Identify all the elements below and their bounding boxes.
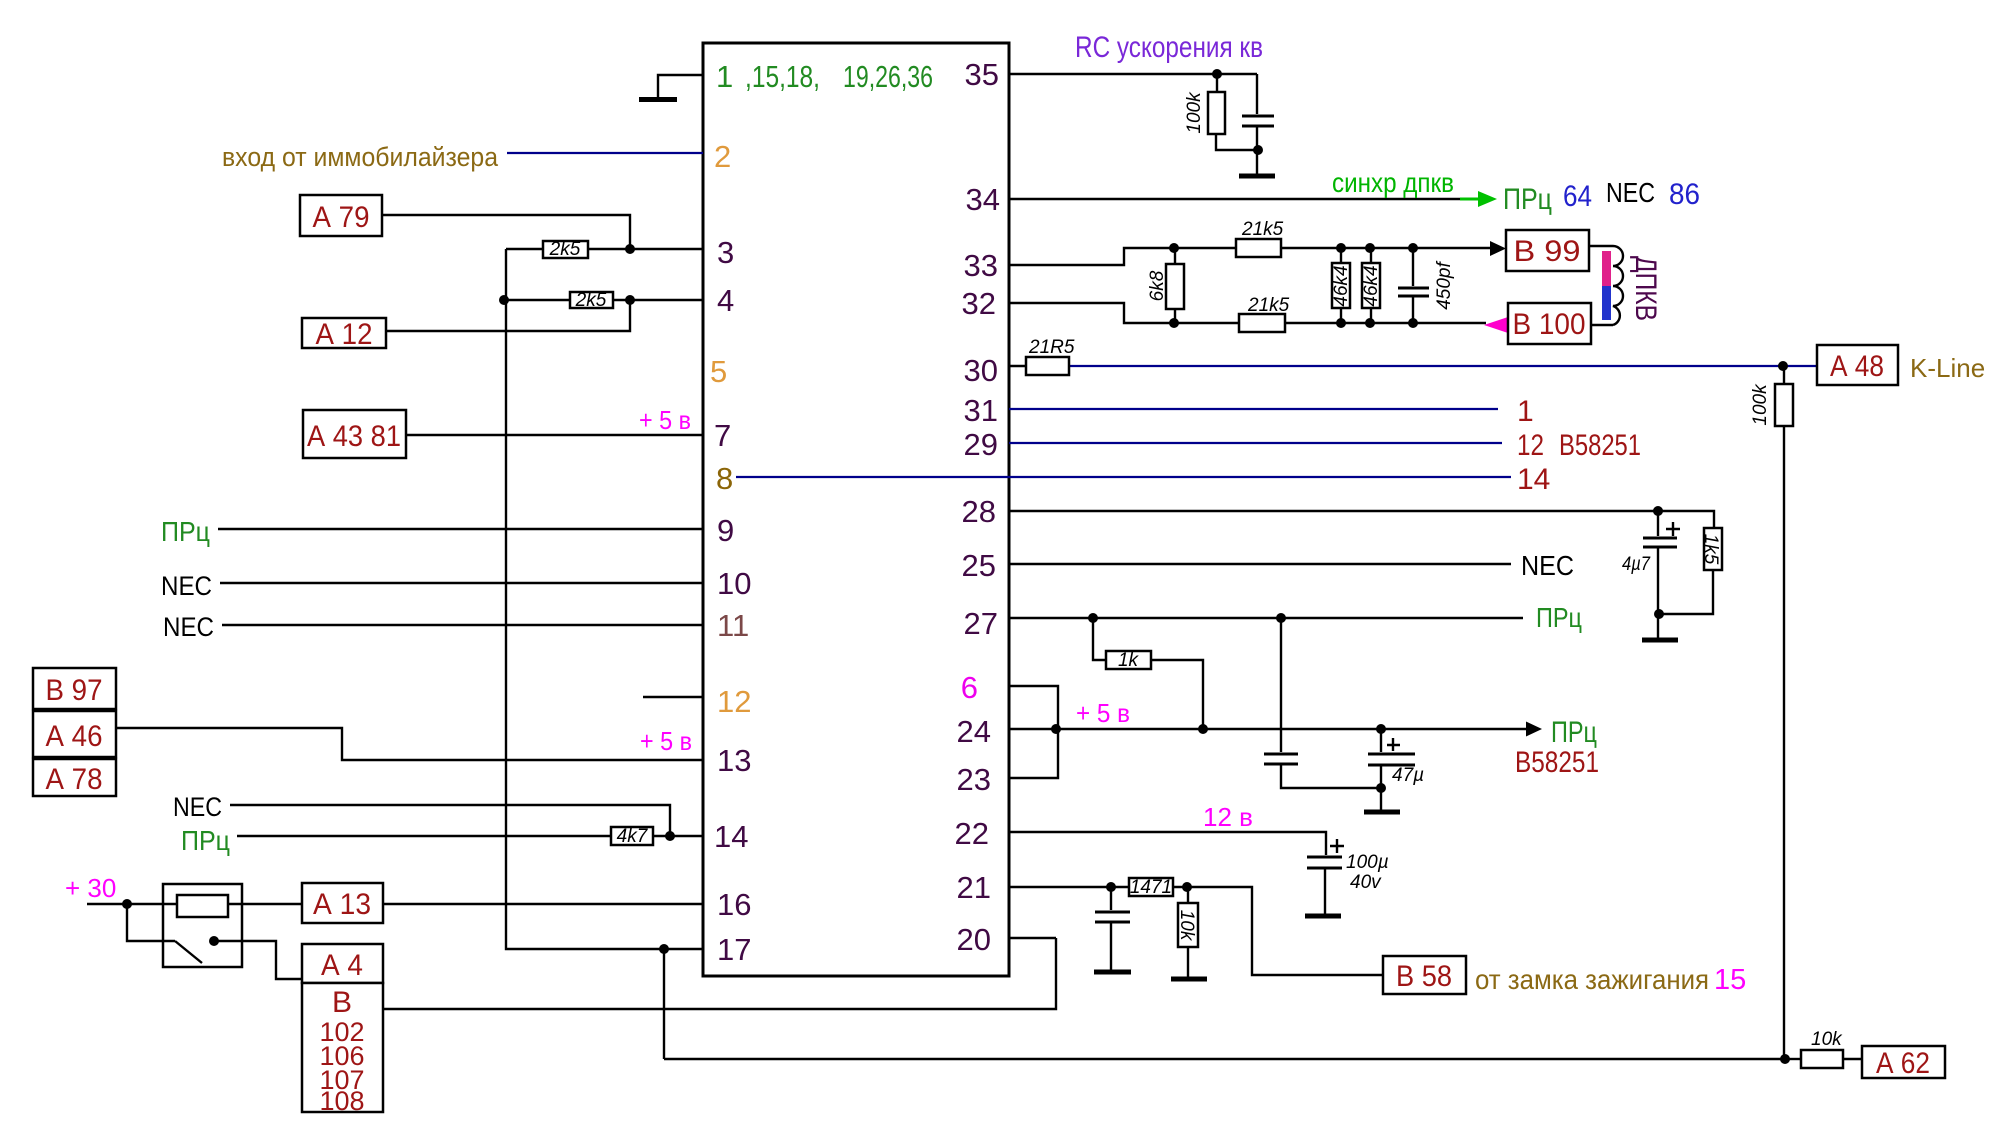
svg-text:28: 28 <box>962 494 996 529</box>
svg-text:от замка зажигания: от замка зажигания <box>1475 964 1709 995</box>
svg-text:20: 20 <box>957 922 991 957</box>
svg-text:2: 2 <box>714 139 731 174</box>
svg-text:В58251: В58251 <box>1515 746 1599 779</box>
svg-text:30: 30 <box>964 353 998 388</box>
svg-text:35: 35 <box>965 57 999 92</box>
svg-text:108: 108 <box>319 1086 364 1116</box>
svg-text:В 97: В 97 <box>46 674 103 707</box>
svg-text:10: 10 <box>717 566 751 601</box>
svg-text:1k5: 1k5 <box>1700 534 1721 565</box>
svg-text:22: 22 <box>955 816 989 851</box>
svg-text:29: 29 <box>964 427 998 462</box>
svg-text:NEC: NEC <box>1606 177 1655 208</box>
svg-text:В58251: В58251 <box>1559 429 1641 462</box>
svg-text:15: 15 <box>1714 964 1746 996</box>
svg-text:1k: 1k <box>1118 650 1140 671</box>
svg-text:4µ7: 4µ7 <box>1622 554 1651 575</box>
svg-text:8: 8 <box>716 461 733 496</box>
svg-text:А 79: А 79 <box>313 201 370 234</box>
svg-text:64: 64 <box>1563 180 1592 213</box>
svg-text:32: 32 <box>962 286 996 321</box>
svg-text:100µ: 100µ <box>1346 852 1389 873</box>
svg-text:34: 34 <box>966 182 1000 217</box>
svg-text:1471: 1471 <box>1130 877 1172 898</box>
svg-text:ПРц: ПРц <box>181 825 230 856</box>
svg-text:2k5: 2k5 <box>575 290 607 311</box>
svg-text:+ 5 в: + 5 в <box>640 726 692 756</box>
svg-text:А 62: А 62 <box>1876 1047 1930 1080</box>
svg-text:,15,18,: ,15,18, <box>745 59 820 94</box>
svg-text:12 в: 12 в <box>1203 802 1253 832</box>
svg-text:13: 13 <box>717 743 751 778</box>
svg-text:+ 5 в: + 5 в <box>639 405 691 435</box>
svg-text:K-Line: K-Line <box>1910 353 1985 383</box>
svg-text:10k: 10k <box>1176 910 1197 942</box>
svg-text:ДПКВ: ДПКВ <box>1629 256 1662 321</box>
svg-text:46k4: 46k4 <box>1361 265 1382 306</box>
svg-text:24: 24 <box>957 714 991 749</box>
svg-text:100k: 100k <box>1184 91 1205 134</box>
svg-text:25: 25 <box>962 548 996 583</box>
svg-text:А 4: А 4 <box>321 949 363 982</box>
svg-text:6k8: 6k8 <box>1147 270 1168 301</box>
svg-text:В: В <box>332 986 352 1019</box>
svg-text:2k5: 2k5 <box>549 239 581 260</box>
svg-text:21k5: 21k5 <box>1241 219 1284 240</box>
svg-text:А 43 81: А 43 81 <box>307 420 401 453</box>
svg-text:1: 1 <box>716 59 733 94</box>
svg-text:синхр дпкв: синхр дпкв <box>1332 167 1454 198</box>
svg-text:3: 3 <box>717 235 734 270</box>
svg-text:4k7: 4k7 <box>617 826 649 847</box>
svg-text:23: 23 <box>957 762 991 797</box>
svg-text:100k: 100k <box>1750 383 1771 426</box>
svg-text:21R5: 21R5 <box>1028 337 1075 358</box>
svg-text:NEC: NEC <box>1521 550 1574 581</box>
svg-text:вход от иммобилайзера: вход от иммобилайзера <box>222 142 499 172</box>
svg-text:12: 12 <box>1517 429 1544 462</box>
svg-text:450pf: 450pf <box>1434 261 1455 310</box>
svg-text:В 99: В 99 <box>1514 235 1581 268</box>
svg-text:16: 16 <box>717 887 751 922</box>
svg-text:86: 86 <box>1669 178 1700 211</box>
svg-text:ПРц: ПРц <box>1503 183 1552 216</box>
svg-text:5: 5 <box>710 354 727 389</box>
svg-text:А 12: А 12 <box>316 318 373 351</box>
svg-text:12: 12 <box>717 684 751 719</box>
svg-text:40v: 40v <box>1350 872 1382 893</box>
svg-text:В 100: В 100 <box>1513 308 1586 341</box>
svg-text:10k: 10k <box>1811 1029 1843 1050</box>
svg-text:7: 7 <box>714 418 731 453</box>
svg-text:RC ускорения кв: RC ускорения кв <box>1075 31 1263 64</box>
svg-text:+ 30: + 30 <box>65 873 116 903</box>
svg-text:9: 9 <box>717 513 734 548</box>
svg-text:21k5: 21k5 <box>1247 295 1290 316</box>
svg-text:А 78: А 78 <box>46 763 103 796</box>
svg-text:ПРц: ПРц <box>1551 716 1597 749</box>
svg-text:19,26,36: 19,26,36 <box>843 59 933 94</box>
svg-text:47µ: 47µ <box>1392 765 1424 786</box>
svg-text:NEC: NEC <box>161 571 212 601</box>
svg-text:+ 5 в: + 5 в <box>1076 698 1130 728</box>
svg-text:27: 27 <box>964 606 998 641</box>
svg-text:NEC: NEC <box>163 612 214 642</box>
svg-text:NEC: NEC <box>173 792 222 822</box>
svg-text:21: 21 <box>957 870 991 905</box>
svg-text:А 48: А 48 <box>1830 350 1884 383</box>
svg-text:ПРц: ПРц <box>1536 602 1582 633</box>
svg-text:ПРц: ПРц <box>161 516 210 547</box>
svg-text:46k4: 46k4 <box>1331 265 1352 306</box>
svg-text:А 13: А 13 <box>313 888 371 921</box>
svg-text:11: 11 <box>717 608 749 643</box>
svg-text:14: 14 <box>1517 463 1550 496</box>
svg-text:17: 17 <box>717 932 751 967</box>
svg-text:1: 1 <box>1517 395 1534 428</box>
svg-text:33: 33 <box>964 248 998 283</box>
svg-text:31: 31 <box>964 393 998 428</box>
svg-text:А 46: А 46 <box>46 720 103 753</box>
svg-text:6: 6 <box>961 670 978 705</box>
svg-text:14: 14 <box>714 819 748 854</box>
svg-text:В 58: В 58 <box>1396 960 1452 993</box>
svg-text:4: 4 <box>717 283 734 318</box>
